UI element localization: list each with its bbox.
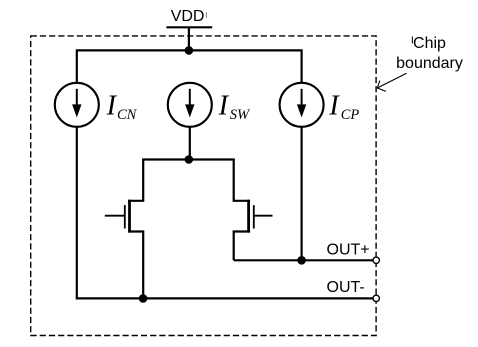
svg-text:boundary: boundary: [396, 55, 463, 72]
current source I_CP: [280, 83, 324, 127]
stray tick before Chip: [411, 37, 413, 44]
svg-text:VDD: VDD: [171, 8, 205, 25]
transistor M1 (left NMOS): [105, 160, 143, 299]
wire I_CN drop to OUT- rail: [77, 127, 373, 299]
wire I_CP drop: [301, 127, 303, 260]
svg-text:I: I: [218, 91, 230, 122]
node OUT- junction: [139, 294, 148, 303]
svg-text:CP: CP: [341, 107, 360, 123]
svg-text:Chip: Chip: [413, 35, 446, 52]
stray tick after VDD: [205, 12, 207, 18]
wire top rail: [77, 50, 302, 82]
terminal OUT+: [373, 257, 379, 263]
wire VDD stem: [188, 27, 190, 50]
terminal OUT-: [373, 295, 379, 301]
VDD supply bar: [166, 26, 212, 28]
node OUT+ junction: [297, 256, 306, 265]
transistor M2 (right NMOS): [234, 160, 273, 261]
wire drain bus: [142, 158, 235, 160]
svg-text:I: I: [328, 91, 340, 122]
node VDD rail junction: [185, 46, 194, 55]
current source I_SW: [168, 83, 212, 127]
node drain bus junction: [185, 155, 194, 164]
wire I_SW drop: [189, 127, 191, 160]
svg-text:I: I: [106, 91, 118, 122]
svg-text:CN: CN: [117, 107, 138, 123]
chip boundary dashed box: [31, 36, 376, 336]
svg-text:OUT-: OUT-: [327, 279, 365, 296]
current source I_CN: [55, 83, 99, 127]
svg-text:OUT+: OUT+: [327, 241, 370, 258]
wire OUT+ rail: [234, 259, 373, 261]
svg-text:SW: SW: [230, 107, 251, 123]
pointer arrow to boundary: [377, 73, 406, 91]
